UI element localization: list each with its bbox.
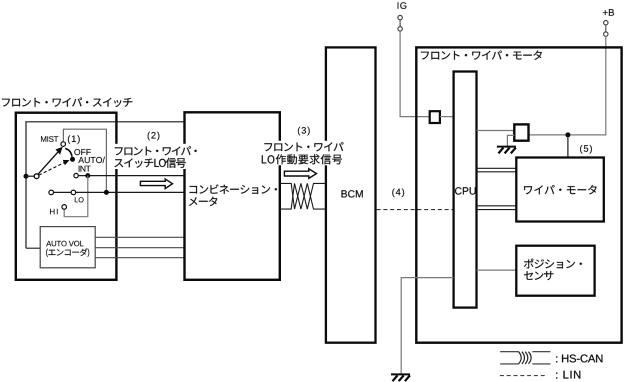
+B connector circles (604, 21, 608, 25)
combination meter box (185, 112, 280, 279)
wire: INT signal to combination meter (78, 175, 184, 177)
LO contact (71, 190, 76, 195)
connector: IG inline connector (430, 111, 440, 123)
label (5) (580, 145, 592, 154)
BCM box (326, 47, 376, 342)
label: position sensor line2 (524, 271, 553, 280)
connector: motor +B inline connector (514, 124, 528, 140)
switch pivot contact (34, 174, 39, 179)
legend label LIN (556, 371, 580, 379)
label: combination meter line1 (190, 184, 278, 194)
label MIST (41, 136, 58, 142)
wire: CPU to wiper motor pair B1 (477, 205, 517, 207)
legend: HS-CAN twisted pair symbol (500, 352, 550, 364)
AUTO VOL encoder box (40, 227, 95, 268)
dashed arm arrowhead (63, 160, 70, 165)
junction: +B node dot (565, 132, 570, 137)
wire: common to AUTO VOL encoder (26, 247, 40, 249)
wire: LO row to combination meter (54, 191, 185, 193)
wire: IG feed to connector (400, 31, 430, 117)
LO feed contact (49, 190, 54, 195)
label: combination meter line2 (189, 197, 217, 206)
label (3) block background (260, 141, 342, 166)
label +B (603, 9, 614, 16)
CPU box U1 (454, 72, 477, 308)
junction: common node dot (24, 174, 29, 179)
wire: +B node to wiper motor (567, 135, 569, 158)
wire: INT to HI loop (grey) (64, 176, 88, 217)
label AUTO/ (78, 157, 105, 163)
ground G1 (497, 147, 516, 154)
signal arrow (2) (140, 179, 172, 189)
wire: switch common vertical (node W1) (26, 122, 185, 248)
front wiper switch box SW1 (16, 113, 117, 280)
wire: encoder output 2 (95, 247, 184, 249)
switch arm (dashed, to AUTO/INT) (39, 163, 65, 176)
wire: CPU to +B connector (477, 130, 515, 132)
junction: LO node dot (104, 190, 109, 195)
label: wiper motor (524, 185, 597, 194)
wire: CPU to wiper motor pair B2 (477, 209, 517, 211)
switch arm (solid, to MIST) (38, 150, 59, 174)
wire: HS-CAN low line (280, 183, 326, 209)
label BCM (342, 190, 363, 197)
label: front wiper switch LO signal line2 (114, 158, 185, 168)
label INT (79, 166, 91, 172)
label AUTO VOL (46, 241, 83, 247)
wire: CPU ground run (401, 278, 453, 374)
wire: HS-CAN high line (280, 183, 326, 209)
label HI (50, 209, 58, 214)
legend: LIN dashed symbol (500, 375, 547, 377)
wire: connector ground stub (507, 135, 514, 146)
wire: connector to CPU (IG) (440, 116, 454, 118)
signal arrow (3) (284, 169, 316, 179)
IG connector circles (398, 15, 402, 19)
junction: INT node dot (85, 173, 90, 178)
label: front wiper motor title (421, 50, 542, 59)
label: position sensor line1 (524, 259, 582, 269)
switch arm travel arc (65, 148, 72, 156)
wire: +B feed (529, 36, 606, 135)
wire: encoder output 3 (95, 257, 184, 259)
ground G2 (391, 374, 410, 381)
wire: CPU to wiper motor pair A2 (477, 171, 517, 173)
label: front wiper switch title (2, 98, 132, 108)
AUTO/INT position dot (70, 157, 75, 162)
label OFF (74, 149, 91, 155)
wire: LIN bus (dashed) BCM to CPU (377, 209, 454, 211)
legend label HS-CAN (556, 355, 602, 363)
wire: dot to pivot (26, 175, 34, 177)
wire: MIST contact riser and bus (grey) (63, 129, 106, 192)
label: front wiper LO request line1 (264, 142, 343, 151)
label: front wiper switch LO signal line1 (115, 146, 197, 155)
front wiper motor assembly box (416, 47, 621, 342)
label (2) block background (113, 144, 205, 169)
wiper motor box M1 (516, 158, 604, 222)
position sensor box (516, 246, 594, 296)
HI contact (62, 205, 67, 210)
MIST contact (61, 142, 66, 147)
label (3) (298, 127, 310, 136)
label CPU (455, 187, 476, 194)
wire: CPU to wiper motor pair A1 (477, 167, 517, 169)
label LO (75, 197, 84, 202)
label: front wiper LO request line2 (262, 154, 342, 164)
label IG (398, 2, 407, 9)
switch arm arrowhead (55, 146, 63, 155)
wire: encoder output 1 (95, 236, 184, 238)
label (4) (392, 189, 404, 198)
wire: CPU to position sensor (477, 269, 517, 271)
label (encoder) (46, 248, 89, 257)
label (2) (148, 132, 160, 141)
INT contact (74, 173, 78, 177)
label (1) (68, 135, 80, 144)
